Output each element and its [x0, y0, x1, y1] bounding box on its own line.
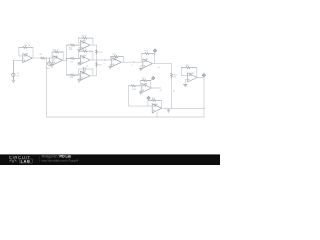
- wire feedback to U5 output: [92, 69, 94, 76]
- wire U8 output stub: [151, 87, 160, 89]
- svg-text:R7 1k: R7 1k: [82, 49, 89, 51]
- ground (below V1): [12, 80, 15, 82]
- logo waveform: [9, 160, 17, 162]
- wire U5 -in to feedback: [79, 69, 81, 74]
- wire U10 -in input: [181, 74, 187, 76]
- resistor R12 (bus lower): [96, 63, 98, 67]
- ground (U6 +in): [110, 64, 112, 66]
- wire U6 out to U7: [121, 61, 143, 63]
- wire U1 -in to feedback: [19, 47, 23, 56]
- op-amp OA7: [143, 59, 153, 68]
- node A junction: [46, 57, 47, 58]
- svg-text:R6 1k: R6 1k: [82, 36, 89, 38]
- wire U7 out to plant column: [152, 63, 171, 65]
- svg-text:u: u: [131, 65, 132, 67]
- wire feedback to U4 output: [92, 51, 94, 60]
- op-amp OA4: [80, 56, 90, 65]
- branch output bus: [96, 45, 98, 76]
- resistor R19 (U10 feedback): [181, 67, 197, 69]
- wire U4 out to out bus: [90, 59, 97, 61]
- footer bar: [0, 154, 220, 165]
- logo text LAB: [19, 159, 32, 163]
- node C junction: [133, 62, 134, 63]
- node E junction: [203, 108, 204, 109]
- op-amp OA9: [152, 104, 162, 113]
- ground (U4 +in): [79, 61, 80, 64]
- ground (node D): [168, 108, 170, 110]
- voltage source V1: [12, 60, 15, 80]
- svg-text:1k: 1k: [174, 77, 176, 79]
- resistor R13 (U6 feedback): [111, 56, 124, 58]
- resistor R17 (U8 feedback): [141, 80, 151, 82]
- svg-text:LAB: LAB: [21, 159, 31, 163]
- wire bottom feedback: [46, 116, 204, 118]
- wire feedback to U9 output: [161, 100, 163, 108]
- wire U2 -in to feedback: [52, 52, 53, 58]
- footer divider: [38, 156, 40, 162]
- net flag (output): [202, 73, 206, 77]
- branch input bus: [66, 45, 68, 75]
- resistor R9 (2nd branch input): [67, 57, 81, 59]
- resistor R10 (I branch input): [67, 74, 81, 76]
- ground (U8 +in): [141, 90, 142, 92]
- capacitor C1 (U5 feedback): [79, 68, 93, 70]
- wire output down right column: [203, 78, 205, 118]
- wire out bus to U6: [97, 59, 112, 61]
- resistor R18 (U9 feedback): [148, 99, 162, 101]
- wire feedback to U6 output: [122, 57, 124, 63]
- op-amp OA3: [80, 41, 90, 50]
- wire U9 feedback left vertical: [147, 100, 149, 106]
- svg-text:R4 1k: R4 1k: [53, 50, 60, 52]
- wire U9 out to right column: [162, 107, 204, 109]
- resistor R3 (series): [41, 57, 47, 59]
- wire U4 -in to feedback: [79, 51, 81, 58]
- bus junction (row2): [66, 58, 67, 59]
- op-amp OA2: [53, 56, 63, 65]
- wire R3 to U2 -in: [46, 57, 53, 59]
- node D junction: [165, 108, 166, 109]
- ground (U7 +in): [141, 66, 143, 69]
- ground (U2 +in): [52, 63, 53, 66]
- wire feedback to U10 output: [196, 68, 198, 78]
- net flag (U9 top left): [147, 96, 150, 100]
- node R15 bottom junction: [171, 108, 172, 109]
- resistor R4 (U2 feedback): [52, 51, 63, 53]
- wire U7 -in to feedback: [142, 54, 143, 62]
- wire feedback to U2 output: [62, 52, 64, 60]
- wire U10 -in to feedback: [180, 68, 182, 76]
- wire feedback to U3 output: [92, 38, 94, 45]
- op-amp OA8: [142, 84, 152, 93]
- wire U5 out to out bus: [90, 75, 97, 77]
- wire U3 -in to feedback: [79, 38, 81, 43]
- ground (U10 +in): [184, 80, 188, 87]
- svg-text:http://circuitlab.com/c/7jqcg6: http://circuitlab.com/c/7jqcg64: [42, 158, 79, 162]
- resistor R16 (U8 input): [129, 85, 141, 87]
- resistor R6 (U3 feedback): [79, 37, 93, 39]
- ground (U5 +in): [79, 78, 80, 80]
- resistor R5 (P branch input): [67, 44, 81, 46]
- op-amp OA10: [188, 73, 198, 82]
- resistor R11 (bus upper): [96, 50, 98, 54]
- bus junction (to summer): [96, 59, 97, 60]
- svg-text:10k: 10k: [69, 49, 72, 51]
- wire U1 output to R3: [32, 57, 41, 59]
- resistor R15 (plant column): [171, 64, 173, 74]
- net flag (U8 top right): [151, 76, 155, 80]
- wire V1 to U1 +in: [13, 59, 22, 61]
- wire U6 -in to feedback: [111, 57, 112, 60]
- wire feedback to U7 output: [153, 54, 155, 64]
- resistor R7f (U4 feedback): [79, 50, 93, 52]
- svg-text:R2 1k: R2 1k: [24, 45, 31, 47]
- wire U10 out: [197, 77, 204, 79]
- wire U2 out to branch bus: [63, 59, 67, 61]
- wire node A down to bottom feedback: [45, 58, 47, 117]
- op-amp OA1: [23, 54, 33, 63]
- wire plant node to U9 -in: [129, 105, 153, 107]
- wire plant node down to U9 row: [128, 86, 130, 106]
- resistor R2 (U1 feedback): [19, 46, 33, 48]
- op-amp OA5: [80, 71, 90, 80]
- wire feedback to U1 output: [32, 47, 34, 58]
- ground (U3 +in): [79, 47, 80, 49]
- bus junction (U2 out): [66, 60, 67, 61]
- wire U3 out to out bus: [90, 44, 97, 46]
- wire U8 -in to feedback: [141, 81, 142, 86]
- voltmeter VM1: [48, 58, 52, 65]
- wire U9 +in down to bottom feedback: [156, 112, 158, 117]
- node B junction: [104, 59, 105, 60]
- op-amp OA6: [112, 58, 122, 67]
- svg-text:1k: 1k: [173, 91, 175, 93]
- wire feedback to U8 output: [150, 81, 152, 89]
- resistor R14 (U7 feedback): [142, 53, 155, 55]
- net flag (U7 top): [153, 49, 157, 54]
